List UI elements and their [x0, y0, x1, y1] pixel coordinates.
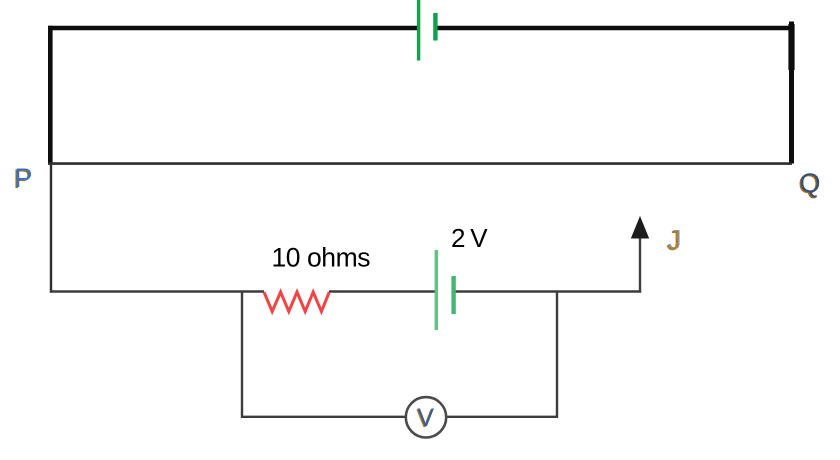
wire bottom right segment — [446, 416, 558, 418]
svg-text:V: V — [417, 404, 434, 432]
wire left branch P down — [50, 164, 52, 293]
voltmeter V1 letter — [416, 404, 434, 433]
battery B1 long plate (top driver cell) — [417, 0, 420, 61]
wire right vertical upper overlap — [788, 24, 794, 70]
node J label — [666, 224, 681, 256]
wire middle left segment — [50, 290, 264, 292]
wire PQ (potentiometer wire) — [48, 162, 792, 165]
wire left vertical (thick) — [48, 26, 53, 164]
wire right vertical (thick) — [789, 22, 794, 164]
wire top left (driver cell top conductor, thick) — [48, 26, 418, 31]
svg-text:2 V: 2 V — [451, 223, 488, 253]
wire jockey stem — [639, 235, 641, 293]
wire voltmeter branch left — [241, 292, 243, 419]
wire middle between resistor and cell — [329, 290, 436, 292]
wire voltmeter branch right — [556, 292, 558, 419]
jockey arrowhead — [631, 216, 649, 239]
node Q label — [798, 168, 820, 199]
wire top right (thick) — [436, 26, 793, 31]
resistor R1 10 ohms (zigzag) — [264, 292, 329, 312]
svg-text:10 ohms: 10 ohms — [272, 243, 371, 273]
svg-text:Q: Q — [800, 168, 821, 198]
battery B1 short plate — [433, 13, 437, 41]
node P label — [13, 163, 32, 194]
wire bottom left segment — [242, 416, 406, 418]
svg-text:P: P — [15, 163, 33, 193]
voltmeter V1 body — [406, 397, 446, 437]
battery B2 long plate (2 V cell) — [435, 250, 438, 330]
battery B2 short plate — [451, 276, 455, 314]
wire middle right segment — [454, 290, 642, 292]
svg-text:J: J — [666, 225, 680, 256]
